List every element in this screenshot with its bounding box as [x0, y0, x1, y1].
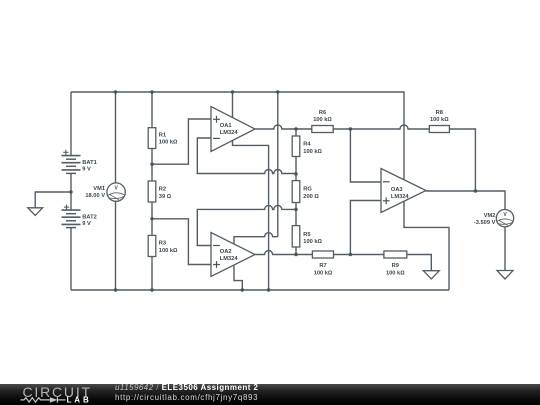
- svg-text:9 V: 9 V: [82, 167, 91, 173]
- svg-text:LM324: LM324: [220, 130, 239, 136]
- svg-text:OA3: OA3: [391, 187, 403, 193]
- svg-text:R4: R4: [303, 142, 311, 148]
- svg-text:100 kΩ: 100 kΩ: [303, 239, 322, 245]
- svg-text:LAB: LAB: [67, 396, 92, 405]
- svg-text:LM324: LM324: [391, 194, 410, 200]
- svg-text:OA1: OA1: [220, 123, 232, 129]
- svg-text:RG: RG: [303, 187, 312, 193]
- svg-text:100 kΩ: 100 kΩ: [313, 117, 332, 123]
- svg-text:200 Ω: 200 Ω: [303, 194, 319, 200]
- svg-text:R6: R6: [319, 110, 326, 116]
- svg-text:-3.509 V: -3.509 V: [474, 220, 496, 226]
- svg-text:100 kΩ: 100 kΩ: [314, 270, 333, 276]
- svg-text:BAT2: BAT2: [82, 214, 96, 220]
- svg-text:VM1: VM1: [93, 186, 105, 192]
- svg-text:BAT1: BAT1: [82, 160, 96, 166]
- svg-text:LM324: LM324: [220, 256, 239, 262]
- svg-text:100 kΩ: 100 kΩ: [430, 117, 449, 123]
- svg-text:18.00 V: 18.00 V: [85, 193, 105, 199]
- svg-text:R1: R1: [159, 132, 166, 138]
- svg-text:R2: R2: [159, 187, 166, 193]
- svg-text:R9: R9: [392, 263, 399, 269]
- svg-text:100 kΩ: 100 kΩ: [159, 140, 178, 146]
- svg-text:OA2: OA2: [220, 249, 232, 255]
- svg-text:VM2: VM2: [484, 213, 496, 219]
- svg-text:39 Ω: 39 Ω: [159, 194, 172, 200]
- svg-text:R5: R5: [303, 232, 310, 238]
- svg-text:100 kΩ: 100 kΩ: [386, 270, 405, 276]
- svg-text:100 kΩ: 100 kΩ: [303, 149, 322, 155]
- svg-text:R8: R8: [436, 110, 443, 116]
- svg-text:R3: R3: [159, 241, 166, 247]
- svg-text:9 V: 9 V: [82, 221, 91, 227]
- svg-text:R7: R7: [319, 263, 326, 269]
- svg-text:100 kΩ: 100 kΩ: [159, 248, 178, 254]
